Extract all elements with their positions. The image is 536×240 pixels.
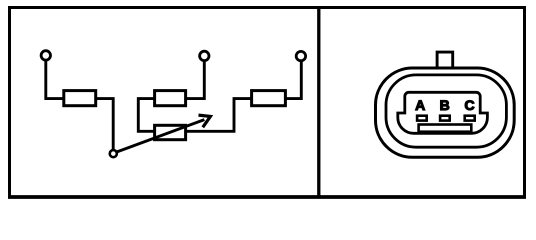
wire R1 to wiper node (96, 99, 114, 150)
svg-text:A: A (415, 97, 425, 113)
svg-text:B: B (440, 97, 450, 113)
pin slot C (465, 116, 475, 121)
resistor R3 (252, 91, 286, 106)
potentiometer P1 track (155, 125, 186, 139)
resistor R1 (64, 91, 96, 106)
connector tab (437, 52, 453, 68)
resistor R2 (155, 91, 186, 106)
wire potentiometer right to R3 (186, 99, 252, 132)
wire R2 to potentiometer left (138, 99, 154, 132)
wiper node circle (110, 150, 117, 157)
panel divider (317, 8, 320, 198)
pin slot A (417, 116, 427, 121)
wire R3 to T3 (285, 61, 301, 99)
wire T2 to R2 (186, 61, 205, 99)
wiper arrow shaft (117, 120, 205, 152)
wire T1 to R1 (46, 60, 64, 98)
terminal T3 (296, 51, 305, 60)
terminal T2 (200, 51, 209, 60)
pin slot B (440, 116, 450, 121)
connector outer shell (376, 68, 515, 157)
terminal T1 (41, 51, 50, 60)
frame bottom edge (8, 195, 526, 199)
svg-text:C: C (465, 97, 475, 113)
connector housing profile (398, 92, 488, 133)
wiper arrowhead (199, 115, 211, 127)
housing bottom bar (419, 125, 472, 132)
connector inner shell (386, 75, 506, 147)
